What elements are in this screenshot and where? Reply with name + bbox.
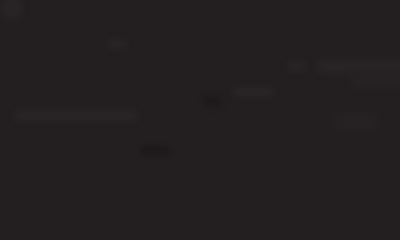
faint light blob top-left [2, 0, 22, 19]
faint light band right side [317, 59, 400, 74]
base dark field [0, 0, 400, 153]
faint dark patch bottom [140, 145, 170, 156]
faint light band lower-left [14, 110, 138, 121]
faint light blob center [233, 87, 273, 97]
faint dark patch center [203, 96, 222, 107]
faint light blob upper-middle-left [107, 39, 127, 49]
faint light patch right-mid small [287, 61, 307, 71]
faint light extension far right [350, 72, 400, 88]
faint light smear lower-right [333, 114, 378, 130]
